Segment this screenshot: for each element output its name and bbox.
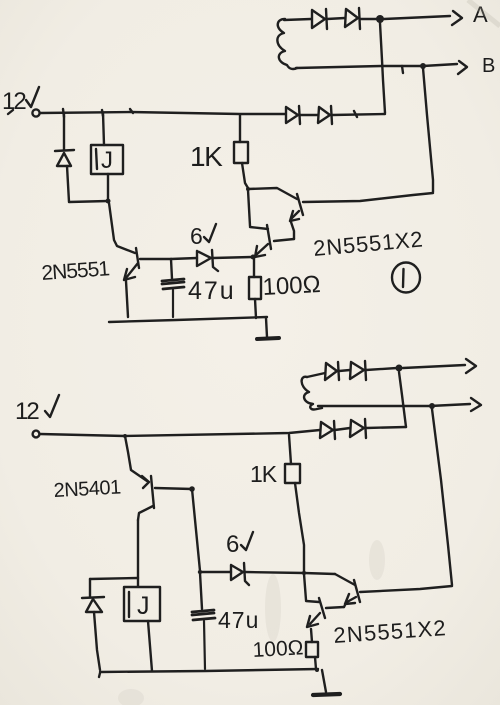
resistor R4 100ohm — [306, 642, 318, 657]
capacitor C1 47u — [162, 279, 184, 317]
transistor Q2b 2N5551 (lower of pair) — [255, 225, 271, 257]
wire (to node) — [360, 18, 379, 20]
transistor Q4b 2N5551 (lower of pair) — [307, 598, 325, 627]
svg-text:12: 12 — [2, 88, 26, 115]
wire — [327, 18, 345, 19]
wire (1K bottom to collector node) — [242, 163, 248, 188]
node (junction dot at cap top) — [198, 570, 202, 574]
wire (Q1 base to zener/cap junction) — [140, 258, 171, 260]
relay J box — [91, 145, 123, 174]
arrowhead A — [452, 11, 462, 25]
resistor R3 1K — [285, 464, 300, 483]
wire (rail end to vertical) — [332, 114, 385, 115]
svg-text:2N5401: 2N5401 — [53, 476, 121, 501]
wire (Q3 collector down to J2 box) — [137, 520, 139, 586]
wire (D5 to bottom junction) — [67, 166, 108, 202]
svg-text:6: 6 — [226, 531, 239, 558]
node (collector junction a) — [246, 187, 250, 191]
wire (node to A arrow) — [384, 16, 450, 19]
zener ZD2 6V — [231, 563, 249, 585]
wire (collector junction b to Q2b) — [250, 227, 268, 229]
wire (100ohm to ground rail) — [255, 299, 256, 318]
diode D4 (on rail) — [318, 106, 332, 124]
wire (feedback vertical 2) — [432, 409, 452, 585]
wire — [339, 370, 350, 371]
wire (J box bottom lead) — [107, 174, 109, 200]
wire (collector junction a to Q2a) — [248, 188, 297, 199]
diode D5 (vertical, cathode up) — [55, 150, 74, 166]
6V label — [190, 223, 216, 249]
circled 1 — [392, 263, 420, 293]
wire (1K top lead from rail) — [239, 115, 241, 142]
diode D9 (on rail) — [320, 421, 335, 439]
arrowhead A2 — [466, 359, 476, 373]
wire (Q2a base to feedback) — [303, 193, 433, 202]
diode D8 — [350, 361, 366, 380]
resistor R1 1K — [234, 142, 248, 163]
wire (D6 top lead) — [89, 579, 91, 597]
inductor L1 (coil) — [277, 19, 297, 69]
svg-text:12: 12 — [15, 398, 39, 425]
svg-text:100Ω: 100Ω — [252, 636, 304, 662]
transistor Q3 2N5401 (PNP) — [138, 476, 192, 520]
wire (Q3 base down to zener junction) — [192, 489, 200, 571]
wire (diode D6 top wire) — [90, 578, 138, 579]
svg-text:J: J — [137, 592, 150, 620]
wire (diag to Q4a) — [335, 574, 355, 585]
wire (drop to diode D5) — [63, 113, 65, 150]
wire (stray tick on B wire) — [402, 66, 403, 73]
wire (rail to Q3 emitter) — [125, 436, 147, 481]
arrowhead B2 — [471, 398, 481, 411]
wire (junction to zener) — [200, 571, 231, 573]
inductor L2 (coil) — [302, 377, 322, 410]
node (feedback tap dot) — [429, 403, 435, 409]
capacitor C1 lead — [171, 259, 172, 279]
12V label 2 — [15, 395, 59, 425]
diode D1 — [312, 9, 327, 29]
transistor Q4a 2N5551 (upper of pair) — [344, 580, 360, 607]
wire (J2 bottom lead) — [148, 621, 152, 671]
wire (coil top to diodes) — [307, 373, 325, 377]
wire (Q4b collector) — [306, 601, 319, 602]
wire (1K2 down to collector junction) — [295, 483, 304, 572]
svg-text:6: 6 — [190, 223, 203, 249]
resistor R2 100ohm — [249, 277, 261, 299]
node (ground junction) — [315, 668, 319, 672]
svg-text:B: B — [482, 55, 495, 77]
paper crease top-right — [468, 0, 500, 26]
transistor Q2a 2N5551 (upper of pair) — [290, 194, 303, 239]
wire (rail to vertical junction) — [366, 427, 406, 428]
wire (cap junction to zener) — [171, 258, 197, 259]
node 12V terminal 2 — [33, 431, 40, 438]
svg-text:47u: 47u — [188, 277, 236, 305]
svg-text:2N5551: 2N5551 — [41, 257, 110, 285]
wire (node to arrow) — [403, 365, 465, 368]
node 12V terminal — [32, 109, 39, 116]
zener ZD1 6V — [197, 250, 218, 271]
node (junction dot on A line) — [376, 15, 384, 23]
diode D10 (on rail) — [350, 419, 366, 438]
wire — [300, 114, 318, 116]
diode D3 (on rail) — [286, 106, 300, 124]
diode D2 — [345, 8, 360, 29]
capacitor C2 47u — [192, 610, 215, 669]
wire (100ohm to bottom rail) — [315, 657, 316, 669]
wire (1K2 lead from rail) — [289, 435, 291, 464]
diode D6 (vertical, cathode up) — [82, 597, 104, 612]
wire (Q4b emitter to 100ohm) — [311, 629, 312, 642]
wire (coil bottom to B arrow) — [296, 64, 457, 68]
svg-text:J: J — [101, 147, 113, 174]
wire (coil top to diode chain A) — [284, 19, 311, 20]
wire (Q4a emitter to Q4b base) — [326, 607, 344, 608]
wire (12V rail) — [40, 112, 285, 114]
wire (12V rail 2) — [40, 430, 320, 436]
wire (vertical from A node down to rail diode wire) — [380, 23, 385, 113]
wire (junction down to Q1 collector) — [109, 203, 135, 253]
svg-text:1K: 1K — [250, 461, 278, 487]
transistor Q1 2N5551 (left) — [124, 248, 139, 317]
node (base corner dot) — [189, 486, 195, 492]
wire (Q4a base to feedback) — [360, 586, 452, 592]
node (junction dot feedback tap on B wire) — [420, 63, 426, 69]
wire (bottom rail 2) — [99, 669, 318, 677]
ground 2 — [313, 670, 340, 695]
capacitor C2 lead — [200, 573, 202, 609]
arrowhead B — [458, 61, 467, 74]
wire (vertical to Q4b collector) — [304, 574, 306, 600]
wire (feedback vertical from B wire) — [423, 68, 433, 192]
wire (vertical between collector junctions) — [248, 190, 250, 226]
node (crossing junction dot) — [302, 571, 306, 575]
node (junction dot) — [396, 365, 403, 372]
relay J2 box — [124, 587, 160, 621]
svg-text:1K: 1K — [190, 141, 223, 172]
node (junction dot under J box) — [106, 199, 111, 204]
smudge marks — [118, 540, 385, 705]
node (emitter junction dot) — [251, 255, 256, 260]
wire (Q2a emitter to Q2b base) — [274, 239, 294, 241]
wire (vertical from A2 node to rail) — [399, 372, 406, 427]
wire (to node) — [366, 368, 397, 370]
node (rail junction for Q3 emitter) — [123, 434, 127, 438]
diode D7 — [325, 362, 339, 380]
wire (zener to emitter junction) — [213, 257, 252, 258]
wire (D6 bottom lead) — [94, 612, 100, 670]
svg-text:47u: 47u — [218, 607, 259, 633]
wire — [335, 428, 350, 430]
wire (rail drop to J box top) — [103, 113, 104, 145]
ground — [257, 318, 279, 339]
12V label — [2, 87, 39, 115]
svg-text:100Ω: 100Ω — [262, 271, 321, 301]
node (rail junction at diode D5 drop) — [63, 109, 64, 117]
wire (bottom rail) — [109, 317, 267, 322]
wire (junction to 100ohm) — [253, 258, 255, 277]
wire (zener to Q4a collector bend) — [245, 572, 335, 574]
6V label 2 — [226, 531, 253, 558]
wire (coil bottom to arrow B2) — [318, 404, 470, 406]
